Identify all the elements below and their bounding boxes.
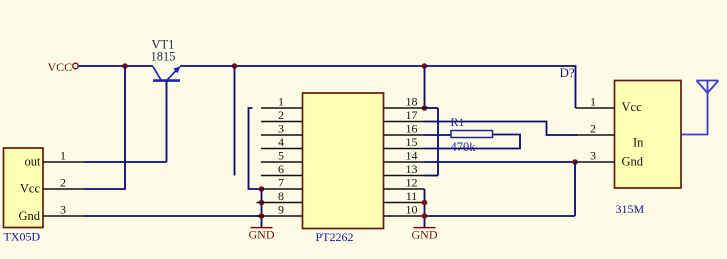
svg-text:9: 9	[278, 203, 284, 217]
junction pin11	[422, 200, 428, 206]
wire TX05D Vcc vertical drop	[84, 66, 125, 189]
pin 3 TX05D Gnd	[43, 215, 84, 217]
pin 5 PT2262	[261, 161, 303, 163]
junction PT2262 pin8	[259, 200, 265, 206]
svg-text:11: 11	[406, 189, 418, 203]
svg-text:2: 2	[590, 122, 596, 136]
svg-text:3: 3	[590, 149, 596, 163]
pin 11 PT2262	[384, 202, 425, 204]
pin 1 315M Vcc	[576, 107, 615, 109]
emitter lead with arrow	[167, 67, 180, 81]
junction on VCC wire at TX05D Vcc drop	[122, 63, 128, 69]
pin 10 PT2262	[384, 215, 425, 217]
svg-text:GND: GND	[249, 228, 275, 242]
wire GND net vertical right	[574, 162, 576, 216]
pin 13 PT2262	[384, 175, 425, 177]
pin 3 PT2262	[261, 134, 303, 136]
svg-text:2: 2	[278, 108, 284, 122]
svg-text:315M: 315M	[616, 202, 645, 216]
wire TX05D out to VT1 base	[84, 161, 167, 163]
pin 4 PT2262	[261, 148, 303, 150]
pin 15 PT2262	[384, 148, 425, 150]
svg-text:13: 13	[406, 162, 418, 176]
pin 1 PT2262	[261, 107, 303, 109]
svg-text:1: 1	[590, 95, 596, 109]
junction rail at x=424.5	[422, 63, 428, 69]
wire VCC to VT1 collector	[78, 65, 153, 67]
svg-text:17: 17	[406, 108, 418, 122]
svg-text:Gnd: Gnd	[18, 209, 40, 223]
pin 18 PT2262	[384, 107, 425, 109]
wire TX05D Gnd to PT2262 pin9	[84, 215, 262, 217]
svg-text:16: 16	[406, 122, 418, 136]
pin 2 315M In	[576, 134, 615, 136]
resistor R1 body	[451, 131, 493, 138]
svg-text:3: 3	[278, 122, 284, 136]
svg-text:Vcc: Vcc	[622, 100, 643, 114]
antenna E1	[681, 81, 719, 135]
pin 16 PT2262	[384, 134, 425, 136]
wire GND net horizontal to pin10	[425, 215, 576, 217]
svg-text:7: 7	[278, 176, 284, 190]
junction rail at x=234.5	[232, 63, 238, 69]
wire rail drop to PT2262 pin18	[424, 66, 426, 108]
junction pin10	[422, 213, 428, 219]
pin 3 315M Gnd	[576, 161, 615, 163]
pin 2 TX05D Vcc	[43, 188, 84, 190]
svg-text:3: 3	[60, 203, 66, 217]
collector lead	[153, 67, 161, 80]
svg-text:14: 14	[406, 149, 418, 163]
wire pin16 to R1	[425, 134, 452, 136]
svg-text:6: 6	[278, 162, 284, 176]
base bar	[153, 79, 180, 82]
wire pin13 to vertical bus	[425, 175, 439, 177]
junction at PT2262 pin18	[422, 105, 428, 111]
svg-text:1: 1	[278, 95, 284, 109]
wire vertical dangling from rail	[234, 66, 236, 176]
wire pin18 to vertical bus	[425, 107, 439, 109]
svg-text:1: 1	[60, 149, 66, 163]
svg-text:GND: GND	[412, 228, 438, 242]
transistor Q1 VT1	[153, 66, 181, 162]
wire pin17 to 315M In	[425, 122, 578, 136]
wire pin14 to 315M Gnd	[425, 161, 578, 163]
wire vertical pins7-9 to GND	[261, 189, 263, 228]
component PT2262 IC body	[303, 93, 384, 229]
svg-text:Gnd: Gnd	[622, 155, 644, 169]
pin 9 PT2262	[257, 215, 303, 217]
wire vertical pin18 to pin13	[437, 108, 439, 176]
base lead down to TX05D out	[166, 81, 168, 162]
junction PT2262 pin9	[259, 213, 265, 219]
pin 7 PT2262	[262, 188, 303, 190]
power port GND left	[249, 228, 275, 242]
pin 12 PT2262	[384, 188, 425, 190]
component TX05D	[4, 148, 44, 228]
svg-text:4: 4	[278, 135, 284, 149]
power port VCC	[48, 60, 79, 74]
svg-text:10: 10	[406, 203, 418, 217]
svg-text:In: In	[633, 136, 644, 150]
svg-text:PT2262: PT2262	[316, 230, 354, 244]
svg-text:1815: 1815	[151, 50, 176, 64]
svg-text:R1: R1	[451, 115, 465, 129]
svg-text:VCC: VCC	[48, 60, 73, 74]
pin 2 PT2262	[261, 121, 303, 123]
svg-text:Vcc: Vcc	[20, 182, 41, 196]
svg-text:12: 12	[406, 176, 418, 190]
wire pin12 down through pin11 pin10 to GND	[424, 189, 426, 228]
svg-text:8: 8	[278, 189, 284, 203]
junction 315M pin3 wire	[572, 159, 578, 165]
component 315M RF module body	[615, 81, 682, 189]
pin 6 PT2262	[261, 175, 303, 177]
pin 1 TX05D out	[43, 161, 84, 163]
junction PT2262 pin7	[259, 186, 265, 192]
wire R1 right lead to pin15	[425, 135, 521, 149]
svg-text:18: 18	[406, 95, 418, 109]
svg-text:TX05D: TX05D	[4, 230, 41, 244]
svg-text:5: 5	[278, 149, 284, 163]
pin 14 PT2262	[384, 161, 425, 163]
power port GND right	[412, 228, 438, 242]
pin 17 PT2262	[384, 121, 425, 123]
svg-text:15: 15	[406, 135, 418, 149]
svg-text:D?: D?	[560, 65, 575, 80]
svg-text:out: out	[25, 155, 42, 169]
svg-text:470k: 470k	[451, 140, 477, 154]
wire VT1 emitter rail to 315M pin1 corner	[180, 66, 576, 108]
svg-text:2: 2	[60, 176, 66, 190]
wire vertical left of PT2262 pins1-7	[249, 108, 262, 189]
pin 8 PT2262	[257, 202, 303, 204]
